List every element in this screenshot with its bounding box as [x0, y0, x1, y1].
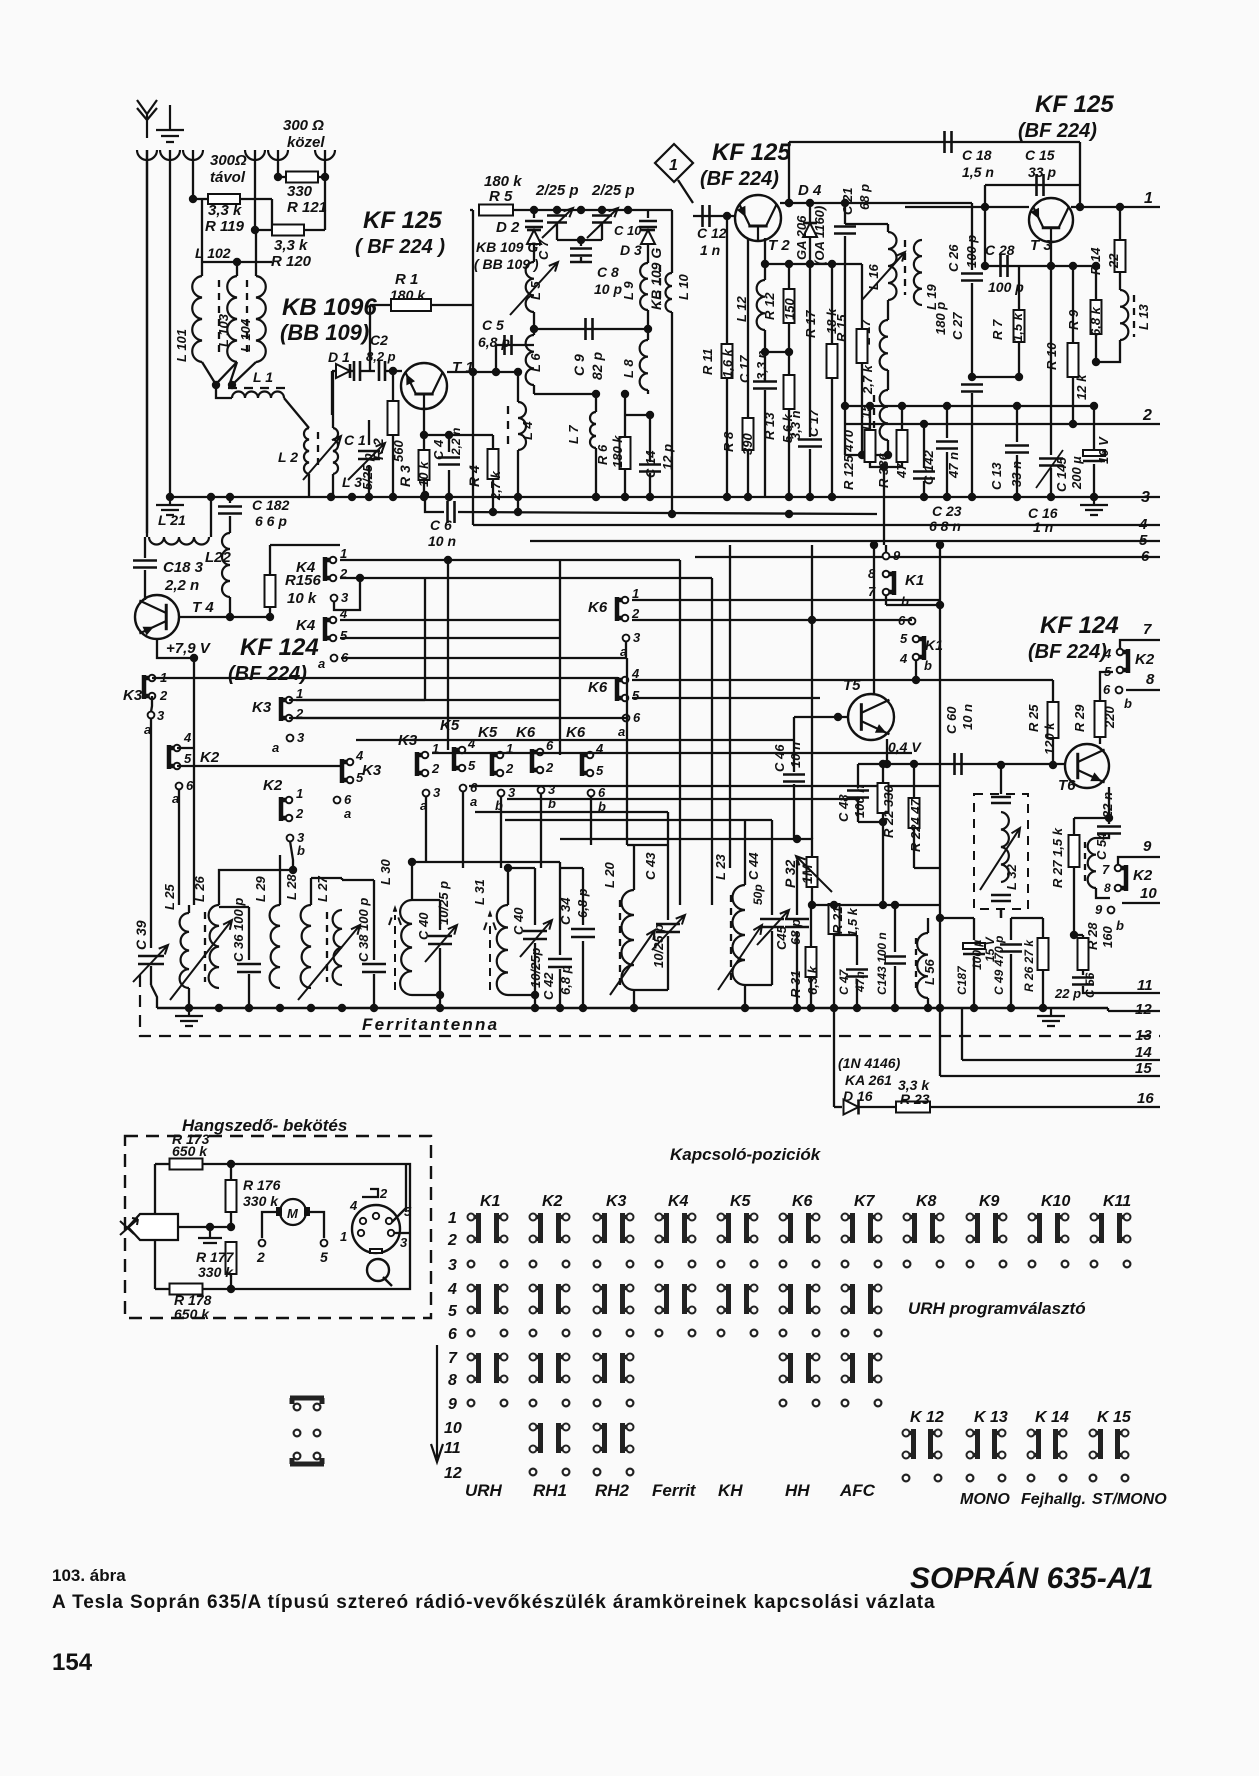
wire	[534, 943, 536, 995]
capacitor C40b	[523, 931, 547, 939]
switch K10 contacts 1/2	[1029, 1213, 1040, 1243]
svg-text:2/25 p: 2/25 p	[591, 182, 635, 199]
wire	[625, 641, 627, 658]
wire	[582, 868, 584, 925]
junction	[807, 1004, 815, 1012]
svg-text:2: 2	[256, 1249, 265, 1265]
svg-text:távol: távol	[210, 169, 246, 186]
wire	[534, 393, 596, 395]
wire2	[927, 905, 929, 933]
svg-text:3,3 n: 3,3 n	[754, 350, 769, 380]
wire	[289, 699, 425, 701]
svg-text:C2: C2	[370, 332, 388, 348]
wire	[1107, 1008, 1109, 1011]
svg-text:K3: K3	[362, 762, 382, 779]
wire	[667, 936, 669, 990]
inductor L22	[222, 533, 230, 597]
pin9 K1	[883, 553, 890, 560]
svg-text:b: b	[297, 843, 305, 858]
junction	[389, 493, 397, 501]
wire long band	[469, 785, 940, 787]
svg-text:K 15: K 15	[1097, 1409, 1132, 1426]
resistor R177	[226, 1242, 237, 1274]
svg-text:K3: K3	[123, 687, 143, 704]
svg-text:6: 6	[1103, 682, 1111, 697]
svg-text:L 32: L 32	[1004, 863, 1019, 890]
switch K3b	[281, 697, 292, 722]
connector	[245, 150, 265, 160]
svg-text:L22: L22	[205, 549, 232, 566]
svg-text:K 14: K 14	[1035, 1409, 1069, 1426]
junction	[185, 1004, 193, 1012]
switch K9 contacts 1/2	[967, 1213, 978, 1243]
wire	[340, 577, 712, 579]
wire	[649, 473, 651, 497]
wire	[340, 559, 680, 561]
switch K2 pos 3 open	[530, 1261, 537, 1268]
wire	[234, 362, 256, 383]
svg-text:1,5 n: 1,5 n	[962, 164, 994, 180]
wire	[1042, 970, 1044, 1008]
wire	[534, 328, 648, 330]
capacitor C16	[1039, 459, 1063, 466]
resistor R23	[896, 1102, 930, 1113]
junction	[206, 1223, 214, 1231]
junction	[266, 613, 274, 621]
switch K3 contacts 10/11	[594, 1423, 605, 1453]
capacitor C9	[586, 318, 593, 340]
junction	[1000, 917, 1002, 919]
wire long band	[432, 752, 912, 754]
switch K4a	[325, 557, 336, 582]
svg-text:R 22 330: R 22 330	[881, 784, 896, 838]
inductor L16	[888, 232, 897, 300]
svg-text:2: 2	[447, 1232, 457, 1249]
wire	[984, 185, 986, 207]
wire long	[939, 545, 941, 1008]
svg-text:C187: C187	[955, 965, 969, 995]
svg-text:D 3: D 3	[620, 242, 642, 258]
junction	[621, 390, 629, 398]
svg-text:1: 1	[296, 786, 303, 801]
capacitor C182	[218, 507, 242, 514]
svg-text:K6: K6	[516, 724, 536, 741]
core	[873, 395, 875, 437]
wire	[507, 868, 509, 905]
wire	[439, 948, 441, 995]
svg-text:R 6: R 6	[595, 444, 610, 465]
junction	[644, 325, 652, 333]
svg-text:1: 1	[632, 586, 639, 601]
wire	[859, 1106, 896, 1108]
wire2	[219, 905, 249, 907]
switch K9 pos 3 open	[967, 1261, 974, 1268]
svg-text:(BB 109): (BB 109)	[280, 320, 369, 345]
switch K1 pos 6 open	[468, 1330, 475, 1337]
svg-text:9: 9	[1143, 838, 1152, 855]
switch K1 pos 3 open	[468, 1261, 475, 1268]
svg-text:120 k: 120 k	[1042, 722, 1057, 755]
core	[218, 280, 220, 358]
svg-text:11: 11	[1137, 977, 1153, 994]
svg-text:L 101: L 101	[174, 329, 189, 362]
wire emitter T4	[157, 639, 194, 658]
junction	[189, 195, 197, 203]
capacitor C46	[783, 775, 805, 782]
svg-text:4: 4	[349, 1198, 358, 1213]
adjust C43	[652, 915, 685, 950]
junction	[943, 402, 951, 410]
svg-text:+7,9 V: +7,9 V	[166, 640, 212, 657]
svg-text:K4: K4	[668, 1193, 689, 1210]
svg-text:3: 3	[400, 1235, 408, 1250]
svg-text:47 n: 47 n	[946, 452, 961, 479]
wire	[271, 199, 273, 230]
resistor R1	[391, 299, 431, 311]
switch K 14 open	[1028, 1475, 1035, 1482]
svg-text:L 25: L 25	[162, 883, 177, 910]
svg-text:R 26 27 k: R 26 27 k	[1022, 939, 1036, 992]
wire	[939, 1008, 941, 1076]
wire from K3 pin1	[152, 677, 618, 679]
capacitor C12	[703, 205, 710, 227]
junction	[212, 381, 220, 389]
switch K1 contacts 7/8	[468, 1353, 479, 1383]
junction	[469, 368, 477, 376]
wire	[193, 198, 208, 200]
svg-text:a: a	[318, 656, 325, 671]
wire	[1052, 738, 1054, 765]
core	[904, 240, 906, 295]
wire	[356, 739, 794, 741]
wire	[230, 362, 237, 383]
core	[246, 280, 248, 358]
resistor R15	[857, 329, 868, 363]
wire	[844, 248, 846, 455]
resistor R14	[1115, 240, 1126, 272]
svg-text:b: b	[901, 594, 909, 609]
wire	[913, 764, 915, 799]
wire	[796, 931, 798, 1008]
pin3	[498, 790, 505, 797]
wire	[764, 352, 766, 381]
inductor L9	[640, 263, 648, 310]
resistor R7	[1014, 310, 1025, 342]
wire	[1120, 640, 1128, 649]
svg-text:180 k: 180 k	[390, 287, 426, 303]
resistor R224	[909, 798, 920, 828]
bus 11	[1118, 992, 1160, 994]
svg-text:K8: K8	[916, 1193, 937, 1210]
wire	[517, 372, 519, 402]
svg-text:C 21: C 21	[840, 188, 855, 215]
capacitor C1b	[354, 361, 360, 381]
adjust L32	[980, 828, 1020, 890]
svg-text:C 15: C 15	[1025, 147, 1055, 163]
junction	[870, 541, 878, 549]
wire	[972, 376, 1019, 378]
svg-text:C 1: C 1	[344, 432, 366, 448]
switch K5c	[492, 752, 503, 777]
wire	[796, 860, 798, 915]
terminal 5	[321, 1240, 328, 1247]
wire	[448, 435, 450, 452]
svg-text:L 10: L 10	[676, 273, 691, 300]
switch K2 contacts 1/2	[530, 1213, 541, 1243]
svg-text:K3: K3	[606, 1193, 627, 1210]
resistor R156	[265, 575, 276, 607]
switch K 15 open	[1090, 1475, 1097, 1482]
junction	[530, 206, 538, 214]
capacitor C42	[548, 959, 572, 967]
junction	[841, 402, 849, 410]
wire	[882, 764, 884, 783]
svg-text:K 12: K 12	[910, 1409, 944, 1426]
junction	[943, 493, 951, 501]
resistor R4	[488, 449, 499, 479]
ground earth	[156, 105, 184, 142]
junction	[1076, 203, 1084, 211]
wire	[248, 907, 250, 960]
svg-text:16: 16	[1137, 1090, 1154, 1107]
junction	[880, 463, 888, 471]
adjust C10	[587, 208, 618, 238]
wire	[310, 878, 312, 905]
wire	[961, 1008, 963, 1060]
switch K7 pos 9 open	[842, 1400, 849, 1407]
junction	[1013, 493, 1021, 501]
wire	[559, 862, 561, 955]
switch K5 pos 6 open	[718, 1330, 725, 1337]
junction	[251, 226, 259, 234]
wire	[350, 370, 354, 372]
wire	[887, 380, 889, 390]
svg-text:K6: K6	[792, 1193, 813, 1210]
switch K5 contacts 4/5	[718, 1284, 729, 1314]
wire	[856, 935, 858, 965]
wire	[332, 370, 336, 372]
inductor L56	[917, 933, 928, 998]
svg-text:b: b	[1116, 918, 1124, 933]
resistor R119	[208, 194, 240, 204]
wire	[1018, 342, 1020, 377]
svg-text:RH1: RH1	[533, 1481, 567, 1500]
svg-text:2: 2	[631, 606, 640, 621]
wire	[833, 1008, 835, 1107]
inductor L2	[304, 428, 309, 474]
junction	[936, 541, 944, 549]
junction	[808, 901, 816, 909]
svg-text:1,6 k: 1,6 k	[720, 348, 735, 378]
wire2	[895, 917, 928, 919]
wire C60	[887, 763, 1065, 765]
adjust C7	[542, 208, 573, 238]
wire	[857, 764, 859, 788]
wire long	[811, 545, 813, 839]
wire drop	[590, 796, 592, 845]
switch K6c	[617, 597, 628, 622]
bus 4	[473, 524, 1160, 526]
svg-text:7: 7	[448, 1350, 458, 1367]
adjust C40	[425, 925, 457, 962]
wire	[279, 855, 281, 905]
wire	[154, 1164, 156, 1222]
wire	[809, 264, 811, 437]
svg-text:5: 5	[448, 1303, 458, 1320]
inductor L25	[180, 913, 189, 988]
wire	[169, 150, 171, 495]
wire2	[793, 717, 795, 740]
svg-text:KF 125: KF 125	[1035, 91, 1114, 118]
svg-text:1: 1	[296, 686, 303, 701]
svg-text:3: 3	[633, 630, 641, 645]
switch K 13 open	[967, 1475, 974, 1482]
inductor L7	[590, 412, 596, 448]
svg-text:5: 5	[596, 763, 604, 778]
wire	[626, 658, 628, 718]
svg-text:URH: URH	[465, 1481, 503, 1500]
resistor R31	[806, 947, 817, 977]
switch K 15 contacts	[1090, 1429, 1101, 1459]
wire	[913, 828, 915, 868]
wire	[580, 240, 582, 246]
svg-text:K1: K1	[480, 1193, 501, 1210]
junction	[828, 260, 836, 268]
junction	[1116, 203, 1124, 211]
junction	[514, 493, 522, 501]
svg-text:8: 8	[1146, 671, 1155, 688]
pin6 K4b	[331, 655, 338, 662]
svg-text:(BF 224): (BF 224)	[228, 663, 307, 685]
wire	[601, 210, 603, 214]
svg-text:33 p: 33 p	[1028, 164, 1056, 180]
svg-text:L 9: L 9	[621, 281, 636, 300]
junction	[668, 510, 676, 518]
capacitor C183	[133, 561, 157, 568]
transistor T3	[1029, 198, 1073, 242]
junction	[630, 1004, 638, 1012]
adjust arrow L30	[389, 908, 401, 990]
pin 3 K3a	[148, 712, 155, 719]
inductor L32	[1001, 812, 1009, 882]
svg-text:D 16: D 16	[843, 1088, 873, 1104]
wire	[834, 1106, 842, 1108]
capacitor C D3	[639, 221, 657, 227]
wire	[373, 974, 375, 1008]
svg-text:0,4 V: 0,4 V	[888, 739, 922, 755]
cap C8 stub	[570, 261, 592, 263]
svg-text:T 3: T 3	[1030, 237, 1052, 254]
capacitor C36	[237, 964, 261, 972]
svg-text:5: 5	[632, 688, 640, 703]
capacitor C142	[936, 442, 958, 449]
inductor L26	[209, 905, 219, 988]
wire	[1016, 406, 1018, 442]
wire	[1050, 468, 1052, 497]
wire	[1016, 455, 1018, 497]
antenna	[137, 100, 157, 138]
pin6	[623, 715, 630, 722]
capacitor C145	[1083, 460, 1105, 463]
svg-text:KH: KH	[718, 1481, 743, 1500]
wire	[1073, 867, 1075, 935]
svg-text:15: 15	[1135, 1060, 1152, 1077]
wire	[901, 406, 903, 430]
wire	[861, 264, 863, 330]
junction	[190, 654, 198, 662]
resistor R3	[419, 450, 430, 480]
resistor R336	[897, 430, 908, 462]
svg-text:T6: T6	[1058, 777, 1076, 794]
wire	[394, 1232, 410, 1234]
capacitor C26	[961, 274, 983, 281]
wire drop	[626, 718, 628, 845]
junction	[898, 402, 906, 410]
adjust L28/27	[298, 925, 360, 1000]
junction	[445, 431, 453, 439]
connector	[160, 150, 180, 160]
svg-text:R 7: R 7	[990, 319, 1005, 340]
capacitor C5	[505, 335, 512, 355]
core L1	[228, 387, 290, 389]
svg-text:K2: K2	[1133, 867, 1153, 884]
svg-text:4: 4	[447, 1281, 457, 1298]
svg-text:C 47: C 47	[837, 968, 851, 995]
junction	[910, 760, 918, 768]
capacitor C44	[760, 919, 784, 927]
wire	[971, 393, 973, 497]
wire	[647, 245, 649, 263]
wire	[831, 378, 833, 497]
svg-text:R 119: R 119	[205, 218, 245, 235]
svg-text:R 31: R 31	[788, 971, 803, 998]
svg-text:C 48: C 48	[836, 794, 851, 822]
svg-text:a: a	[470, 794, 477, 809]
svg-text:6 6 p: 6 6 p	[255, 513, 287, 529]
junction	[226, 493, 234, 501]
junction	[891, 1004, 899, 1012]
junction	[233, 258, 241, 266]
wire	[809, 449, 811, 497]
svg-text:(1N 4146): (1N 4146)	[838, 1055, 901, 1071]
svg-text:390: 390	[740, 433, 755, 455]
wire	[412, 994, 440, 996]
wire	[458, 512, 877, 514]
junction	[806, 199, 814, 207]
svg-text:L 6: L 6	[528, 353, 543, 372]
dashed box pickup	[125, 1136, 431, 1318]
svg-text:Ferritantenna: Ferritantenna	[362, 1015, 499, 1034]
wire	[1079, 185, 1081, 207]
pin3	[623, 635, 630, 642]
wire	[1093, 464, 1095, 497]
svg-text:5: 5	[468, 758, 476, 773]
wire	[765, 351, 789, 353]
svg-text:22: 22	[1106, 253, 1121, 269]
wire	[744, 820, 746, 885]
svg-text:L 103: L 103	[216, 313, 231, 347]
wire drop	[500, 796, 502, 868]
inductor L5	[526, 262, 534, 312]
inductor L104	[256, 276, 266, 362]
wire	[556, 224, 558, 240]
wire	[894, 905, 896, 952]
wire	[905, 202, 972, 204]
svg-text:P 32: P 32	[782, 860, 798, 888]
junction	[970, 1004, 978, 1012]
capacitor C45	[785, 919, 809, 927]
junction	[924, 1004, 932, 1012]
